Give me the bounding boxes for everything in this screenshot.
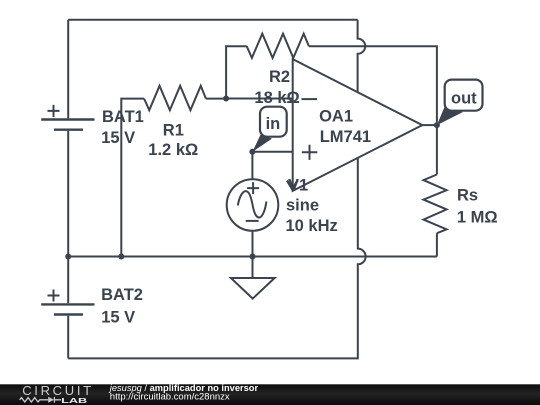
node flag in box <box>260 107 287 137</box>
battery BAT1 plus sign <box>48 105 60 117</box>
svg-text:R1: R1 <box>163 122 184 140</box>
wire non-inverting input <box>252 151 292 153</box>
svg-text:http://circuitlab.com/c28nnzx: http://circuitlab.com/c28nnzx <box>110 392 230 403</box>
junction node R1/R2/inverting input <box>223 96 229 102</box>
svg-text:10 kHz: 10 kHz <box>286 217 338 235</box>
svg-text:sine: sine <box>286 196 319 214</box>
ground symbol <box>231 278 275 299</box>
wire inverting input <box>226 98 293 100</box>
footer logo resistor-diode squiggle <box>20 397 61 403</box>
wire BAT1 top lead <box>67 20 69 119</box>
wire feedback top from R2 to output column <box>309 46 437 122</box>
ground stem <box>252 257 254 278</box>
wire top rail <box>68 19 357 21</box>
wire V1 bottom lead <box>252 231 254 257</box>
junction node R1 bottom <box>118 254 124 260</box>
wire BAT1 bottom lead <box>67 131 69 257</box>
junction node out <box>434 122 440 128</box>
battery BAT2 plus sign <box>48 290 60 302</box>
svg-text:R2: R2 <box>269 68 290 86</box>
wire V1 top lead <box>251 152 253 179</box>
svg-text:18 kΩ: 18 kΩ <box>254 89 299 107</box>
junction node ground <box>250 254 256 260</box>
svg-text:V1: V1 <box>288 176 308 194</box>
resistor Rs <box>424 175 447 234</box>
wire R1 left branch down to rail <box>121 99 144 257</box>
svg-text:15 V: 15 V <box>101 129 135 147</box>
op-amp OA1 triangle <box>293 59 423 191</box>
node flag out box <box>445 80 483 111</box>
wire middle rail <box>68 256 437 258</box>
svg-text:BAT2: BAT2 <box>101 286 143 304</box>
wire op-amp output to node <box>422 124 437 126</box>
wire Rs bottom lead <box>436 233 438 256</box>
svg-text:OA1: OA1 <box>319 108 353 126</box>
svg-text:out: out <box>451 90 477 108</box>
wire feedback left branch <box>226 46 247 98</box>
battery BAT2 <box>41 304 94 314</box>
junction node in <box>249 149 255 155</box>
svg-text:BAT1: BAT1 <box>102 108 144 126</box>
svg-text:in: in <box>266 115 281 133</box>
svg-text:15 V: 15 V <box>101 309 135 327</box>
voltage source V1 circle <box>227 179 279 231</box>
resistor R1 <box>144 86 206 110</box>
wire R1 right lead <box>206 98 226 100</box>
wire V+ supply drop with hop <box>358 20 366 93</box>
op-amp OA1 minus input marker <box>302 98 318 100</box>
wire V- supply drop with hop and bottom rail <box>68 158 365 359</box>
svg-text:1 MΩ: 1 MΩ <box>457 208 498 226</box>
V1 label pointer arrow <box>287 181 298 190</box>
svg-text:LAB: LAB <box>61 396 88 405</box>
node flag in tail <box>252 135 272 152</box>
voltage source V1 minus sign <box>246 220 259 222</box>
voltage source V1 plus sign <box>247 182 259 194</box>
wire Rs top lead <box>436 125 438 174</box>
svg-text:Rs: Rs <box>457 187 478 205</box>
svg-text:1.2 kΩ: 1.2 kΩ <box>148 141 198 159</box>
resistor R2 <box>247 34 309 58</box>
op-amp OA1 plus input marker <box>302 145 318 160</box>
wire BAT2 bottom lead <box>67 316 69 359</box>
node flag out tail <box>437 107 463 125</box>
voltage source V1 sine symbol <box>238 191 267 217</box>
wire BAT2 top lead <box>67 257 69 304</box>
svg-text:LM741: LM741 <box>320 128 371 146</box>
battery BAT1 <box>41 120 94 130</box>
junction node BAT1/BAT2 <box>65 254 71 260</box>
